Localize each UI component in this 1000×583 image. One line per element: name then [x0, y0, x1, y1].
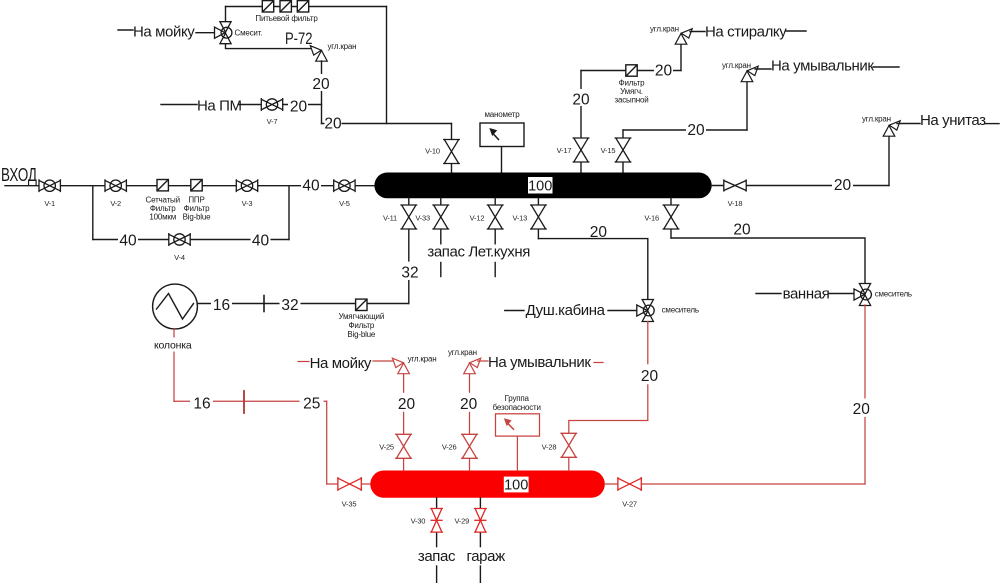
wire умывальник riser: [746, 82, 748, 131]
svg-text:Смесит.: Смесит.: [235, 29, 263, 38]
svg-text:На мойку: На мойку: [310, 355, 372, 372]
svg-text:V-17: V-17: [557, 146, 572, 155]
svg-text:угл.кран: угл.кран: [650, 25, 679, 34]
svg-text:На ПМ: На ПМ: [197, 98, 242, 115]
svg-text:V-35: V-35: [342, 500, 357, 509]
wire V-33 stub below label: [440, 263, 442, 277]
svg-text:20: 20: [590, 224, 608, 241]
valve V-15: [615, 138, 632, 163]
wire mixer top port: [225, 7, 227, 23]
label 16 (гор.): [190, 393, 213, 411]
label 20 (V-25): [396, 393, 417, 412]
svg-text:V-30: V-30: [411, 516, 426, 525]
svg-text:V-27: V-27: [622, 500, 637, 509]
svg-text:100: 100: [528, 178, 552, 194]
svg-text:Р-72: Р-72: [285, 29, 313, 48]
svg-text:20: 20: [572, 92, 590, 109]
wire душ.кабина lead-in dash: [505, 310, 524, 312]
wire corner valve to text: [478, 360, 488, 362]
svg-text:манометр: манометр: [484, 110, 520, 119]
svg-text:угл.кран: угл.кран: [722, 61, 751, 70]
svg-text:V-29: V-29: [454, 516, 469, 525]
svg-text:V-28: V-28: [542, 443, 557, 452]
label 40 (байпас слева): [118, 231, 138, 248]
svg-text:V-26: V-26: [442, 443, 457, 452]
svg-text:V-1: V-1: [44, 199, 55, 208]
valve V-18: [724, 180, 747, 192]
wire bypass bottom: [93, 239, 289, 241]
wire группа безопасности stem: [516, 437, 518, 470]
wire ванная hot riser: [864, 305, 866, 484]
filter ППР Big-blue: [191, 180, 202, 191]
svg-text:угл.кран: угл.кран: [408, 355, 437, 364]
valve V-28: [560, 433, 577, 458]
svg-text:гараж: гараж: [467, 548, 506, 565]
svg-text:20: 20: [460, 396, 478, 413]
label 20 (стояк душ.кабины гор.): [638, 364, 661, 384]
valve V-10: [443, 139, 460, 164]
corner valve угл.кран (На унитаз): [883, 121, 900, 137]
label 20 (V-17 stem): [571, 89, 591, 106]
corner valve угл.кран (На умывальник): [741, 66, 758, 82]
tick (смена диаметра гор.): [243, 391, 245, 413]
svg-text:На умывальник: На умывальник: [771, 58, 874, 75]
svg-text:V-18: V-18: [728, 199, 743, 208]
svg-text:V-12: V-12: [470, 214, 485, 223]
label 20 (вертикаль угл.крана): [311, 74, 332, 91]
valve V-4: [169, 233, 191, 246]
label 20 (линия умывальника): [686, 122, 706, 137]
wire V-11 stem: [408, 198, 410, 304]
svg-text:V-11: V-11: [383, 214, 397, 223]
wire hot down to коллектор: [326, 401, 328, 484]
corner valve угл.кран (гор. На умывальник): [464, 358, 481, 374]
svg-text:Фильтр: Фильтр: [348, 321, 374, 330]
svg-text:Группа: Группа: [505, 394, 530, 403]
svg-text:безопасности: безопасности: [493, 403, 541, 412]
wire стиралка riser: [680, 44, 682, 71]
wire corner valve down: [321, 61, 323, 124]
wire На ПМ to valve: [239, 104, 322, 106]
svg-text:V-16: V-16: [644, 214, 659, 223]
svg-text:Умягчающий: Умягчающий: [338, 312, 384, 321]
svg-text:На мойку: На мойку: [133, 24, 195, 41]
wire main inlet line: [5, 185, 374, 187]
svg-text:16: 16: [193, 396, 210, 413]
svg-text:20: 20: [312, 76, 330, 93]
filter умягч. засыпной: [626, 65, 637, 76]
wire ванная feed: [671, 238, 865, 284]
svg-text:20: 20: [733, 222, 751, 239]
valve V-7: [261, 98, 283, 111]
valve V-17: [573, 138, 590, 163]
wire hot horizontal: [174, 400, 327, 402]
label 100 (холодный коллектор): [528, 177, 553, 194]
wire V-25 branch: [403, 374, 405, 471]
filter F3 (питьевой): [297, 1, 308, 12]
corner valve угл.кран (гор. На мойку): [392, 358, 409, 374]
wire V-33 stem: [440, 198, 442, 244]
mixer смеситель (ванная): [854, 284, 871, 306]
corner valve угл.кран (верх, к смесителю): [310, 46, 327, 62]
svg-text:40: 40: [119, 233, 137, 250]
wire гараж stub: [479, 566, 481, 583]
wire V-28 branch: [569, 322, 648, 471]
wire to На умывальник: [755, 68, 771, 70]
valve V-3: [236, 179, 258, 192]
wire душ.кабина feed: [538, 239, 647, 300]
svg-text:Душ.кабина: Душ.кабина: [526, 302, 606, 319]
manifold cold (коллектор 100): [374, 173, 711, 199]
wire На ПМ line: [161, 104, 197, 106]
valve V-11: [400, 205, 417, 230]
valve V-5: [333, 179, 355, 192]
wire V-29 stem: [479, 498, 481, 547]
svg-text:Big-blue: Big-blue: [183, 213, 212, 222]
svg-text:100: 100: [504, 478, 528, 494]
svg-text:запас: запас: [418, 548, 456, 565]
boiler колонка: [153, 284, 198, 329]
corner valve угл.кран (На стиралку): [675, 29, 692, 45]
wire На мойку lead-in dash: [118, 29, 133, 31]
label 20 (V-26): [458, 393, 479, 412]
label 20 (линия унитаза): [832, 176, 853, 192]
svg-text:16: 16: [213, 297, 230, 314]
wire манометр stem: [501, 147, 503, 175]
filter F2 (питьевой): [280, 1, 291, 12]
mixer Смесит.: [215, 22, 232, 44]
wire after На стиралку: [786, 30, 806, 32]
svg-text:40: 40: [302, 178, 320, 195]
wire V-18 line: [712, 185, 889, 187]
wire right drop of filter loop: [386, 7, 388, 124]
label 20 (стояк ванной гор.): [851, 399, 872, 418]
svg-text:На стиралку: На стиралку: [705, 24, 787, 41]
wire after На умывальник (гор.): [594, 362, 603, 364]
svg-text:смеситель: смеситель: [662, 306, 699, 315]
svg-text:V-10: V-10: [425, 147, 440, 156]
svg-text:засыпной: засыпной: [615, 96, 649, 105]
wire ванная lead-in dash: [756, 293, 781, 295]
filter F1 (питьевой): [262, 1, 273, 12]
wire унитаз riser: [888, 136, 890, 186]
svg-text:На унитаз: На унитаз: [920, 112, 986, 129]
valve V-30: [430, 508, 443, 532]
label 16: [211, 294, 232, 312]
wire bypass down leg: [92, 186, 94, 240]
filter умягчающий Big-blue: [356, 299, 367, 310]
svg-text:20: 20: [641, 368, 659, 385]
wire V-17 stem: [580, 71, 582, 175]
label колонка: [152, 338, 192, 352]
wire horizontal to колонка: [197, 303, 408, 305]
svg-text:V-15: V-15: [601, 146, 616, 155]
wire V-13 stem: [537, 198, 539, 239]
svg-text:100мкм: 100мкм: [149, 213, 176, 222]
svg-text:ВХОД: ВХОД: [1, 164, 37, 185]
svg-text:20: 20: [398, 396, 416, 413]
wire запас stub: [436, 566, 438, 583]
svg-text:20: 20: [834, 177, 852, 194]
svg-text:V-25: V-25: [379, 443, 394, 452]
label 20 (линия ПМ): [288, 97, 308, 112]
label 40 (перед V-5): [301, 176, 321, 193]
manifold hot (коллектор 100): [370, 471, 605, 498]
valve V-12: [487, 205, 504, 230]
svg-text:смеситель: смеситель: [875, 290, 912, 299]
wire ванная text to mixer: [829, 293, 854, 295]
valve V-16: [663, 205, 680, 230]
svg-text:Big-blue: Big-blue: [347, 330, 376, 339]
svg-text:угл.кран: угл.кран: [448, 348, 477, 357]
svg-text:На умывальник: На умывальник: [488, 354, 591, 371]
svg-text:20: 20: [290, 99, 308, 116]
svg-text:32: 32: [401, 265, 418, 282]
wire to На унитаз: [897, 123, 920, 125]
wire мойку text to corner valve: [373, 360, 393, 362]
wire На мойку dash: [298, 361, 309, 363]
svg-text:угл.кран: угл.кран: [328, 42, 357, 51]
valve V-2: [105, 179, 127, 192]
svg-text:32: 32: [281, 297, 298, 314]
wire На мойку to mixer: [196, 32, 215, 34]
wire after На умывальник: [873, 66, 899, 68]
valve V-27: [618, 477, 642, 491]
svg-text:V-3: V-3: [242, 199, 253, 208]
svg-text:колонка: колонка: [154, 340, 192, 352]
valve V-35: [338, 477, 362, 491]
wire V-30 stem: [436, 498, 438, 547]
wire mixer bottom port: [226, 44, 312, 49]
wire hot from колонка down: [173, 329, 175, 401]
svg-text:20: 20: [853, 401, 871, 418]
wire to На стиралку: [690, 31, 705, 33]
label 25: [300, 393, 324, 411]
wire V-12 stub below label: [494, 263, 496, 277]
label 20 (узел): [325, 117, 342, 130]
svg-text:V-2: V-2: [110, 199, 121, 208]
wire top drinking-filter loop horizontal: [226, 6, 387, 8]
wire V-26 branch: [469, 374, 471, 471]
filter сетчатый: [157, 180, 168, 191]
wire horizontal y123 to V-10: [322, 123, 452, 125]
safety group box Группа безопасности: [496, 414, 540, 436]
valve V-25: [395, 434, 412, 459]
wire into V-35: [327, 483, 371, 485]
wire V-15 stem: [622, 130, 624, 174]
svg-text:Питьевой фильтр: Питьевой фильтр: [255, 14, 318, 23]
svg-text:запас Лет.кухня: запас Лет.кухня: [427, 244, 530, 261]
wire V-16 stem: [670, 198, 672, 238]
label 40 (байпас справа): [251, 231, 271, 248]
svg-text:25: 25: [303, 396, 320, 413]
valve V-29: [474, 508, 487, 532]
label 32 (стояк V-11): [399, 262, 420, 280]
valve V-26: [461, 434, 478, 459]
valve V-13: [530, 205, 547, 230]
svg-text:V-5: V-5: [339, 199, 350, 208]
valve V-33: [432, 205, 449, 230]
svg-text:20: 20: [324, 116, 342, 133]
wire V-27 line: [605, 483, 865, 485]
svg-text:V-4: V-4: [174, 253, 185, 262]
wire after На унитаз: [985, 123, 999, 125]
svg-text:V-33: V-33: [415, 214, 430, 223]
wire душ.кабина text to mixer: [608, 310, 637, 312]
svg-text:V-13: V-13: [512, 214, 527, 223]
label 32: [280, 294, 301, 312]
tick (смена диаметра): [263, 296, 265, 312]
wire bypass up leg: [288, 186, 290, 240]
label 100 (горячий коллектор): [504, 477, 529, 493]
label 20 (линия стиралки): [654, 60, 673, 77]
svg-text:40: 40: [252, 233, 270, 250]
svg-text:V-7: V-7: [267, 117, 278, 126]
manometer box: [480, 123, 524, 147]
svg-text:ванная: ванная: [783, 286, 830, 303]
wire V-10 stem: [451, 124, 453, 175]
valve V-1: [39, 179, 61, 192]
wire y70.5 to стиралка riser: [581, 70, 681, 72]
svg-text:20: 20: [687, 122, 705, 139]
svg-text:20: 20: [655, 63, 673, 80]
wire y130 умывальник line: [623, 129, 747, 131]
mixer смеситель (душ.кабина): [637, 300, 654, 322]
svg-text:угл.кран: угл.кран: [862, 115, 891, 124]
wire V-12 stem: [494, 198, 496, 244]
